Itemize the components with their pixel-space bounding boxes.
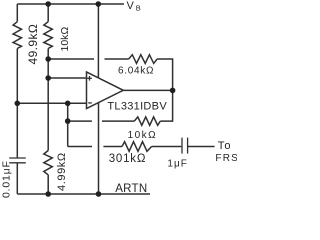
junction bottom rail at divider (45, 191, 51, 197)
junction divider at feedback row (45, 56, 51, 62)
resistor R 4.99k (44, 151, 53, 175)
op-amp minus marker (88, 102, 92, 104)
wire feedback row right of crossover (105, 58, 129, 60)
capacitor C 0.01uF (9, 158, 26, 163)
junction inverting node lower (65, 118, 71, 124)
junction top rail at supply (96, 1, 102, 7)
wire noninverting input (48, 77, 86, 79)
wire 10k row to output corner (160, 90, 172, 121)
wire top rail VB (17, 3, 124, 5)
svg-text:301kΩ: 301kΩ (109, 153, 147, 165)
svg-text:10kΩ: 10kΩ (128, 130, 157, 141)
junction bottom rail at ground pin (96, 191, 102, 197)
wire inverting input (17, 102, 86, 104)
svg-text:ARTN: ARTN (115, 183, 147, 195)
svg-text:0.01μF: 0.01μF (0, 160, 12, 198)
wire left rail upper (16, 4, 18, 22)
wire left rail middle (16, 49, 18, 158)
junction divider at noninverting input (45, 75, 51, 81)
wire supply pin (97, 4, 99, 78)
svg-text:49.9kΩ: 49.9kΩ (26, 24, 40, 65)
wire 301k row right of crossover (103, 146, 122, 148)
wire divider lower (47, 175, 49, 194)
wire left rail lower (16, 163, 18, 194)
svg-text:TL331IDBV: TL331IDBV (107, 101, 167, 113)
svg-text:6.04kΩ: 6.04kΩ (118, 66, 154, 77)
wire 301k to capacitor (152, 146, 182, 148)
junction output node (170, 88, 176, 94)
resistor R 49.9k (13, 22, 21, 49)
resistor R 301k (122, 142, 152, 152)
wire 301k row left (68, 146, 92, 148)
wire 10k row right of crossover (102, 120, 134, 122)
resistor R 10k vertical (44, 22, 53, 49)
wire to FRS (188, 146, 215, 148)
wire bottom rail ARTN (17, 193, 150, 195)
wire ground pin (98, 103, 100, 194)
junction inverting node upper (65, 101, 71, 107)
wire output (123, 89, 172, 91)
svg-text:V: V (127, 0, 135, 12)
svg-text:4.99kΩ: 4.99kΩ (56, 152, 68, 191)
wire 10k row left (68, 120, 92, 122)
op-amp plus marker (87, 76, 92, 81)
wire divider middle (47, 49, 49, 151)
wire inverting node vertical (67, 103, 69, 146)
junction top rail at divider (45, 1, 51, 7)
resistor R 6.04k (129, 55, 157, 64)
junction left rail at inverting input (14, 101, 20, 107)
svg-text:To: To (218, 140, 232, 152)
svg-text:B: B (136, 4, 141, 13)
op-amp U1 TL331IDBV (87, 72, 124, 109)
wire feedback row left (48, 58, 94, 60)
wire feedback row to corner (157, 59, 173, 90)
wire divider upper (47, 4, 49, 22)
svg-text:1μF: 1μF (167, 158, 187, 169)
svg-text:FRS: FRS (215, 153, 237, 164)
resistor R 10k horizontal (134, 117, 160, 125)
capacitor C 1uF (182, 138, 188, 154)
svg-text:10kΩ: 10kΩ (59, 27, 71, 52)
